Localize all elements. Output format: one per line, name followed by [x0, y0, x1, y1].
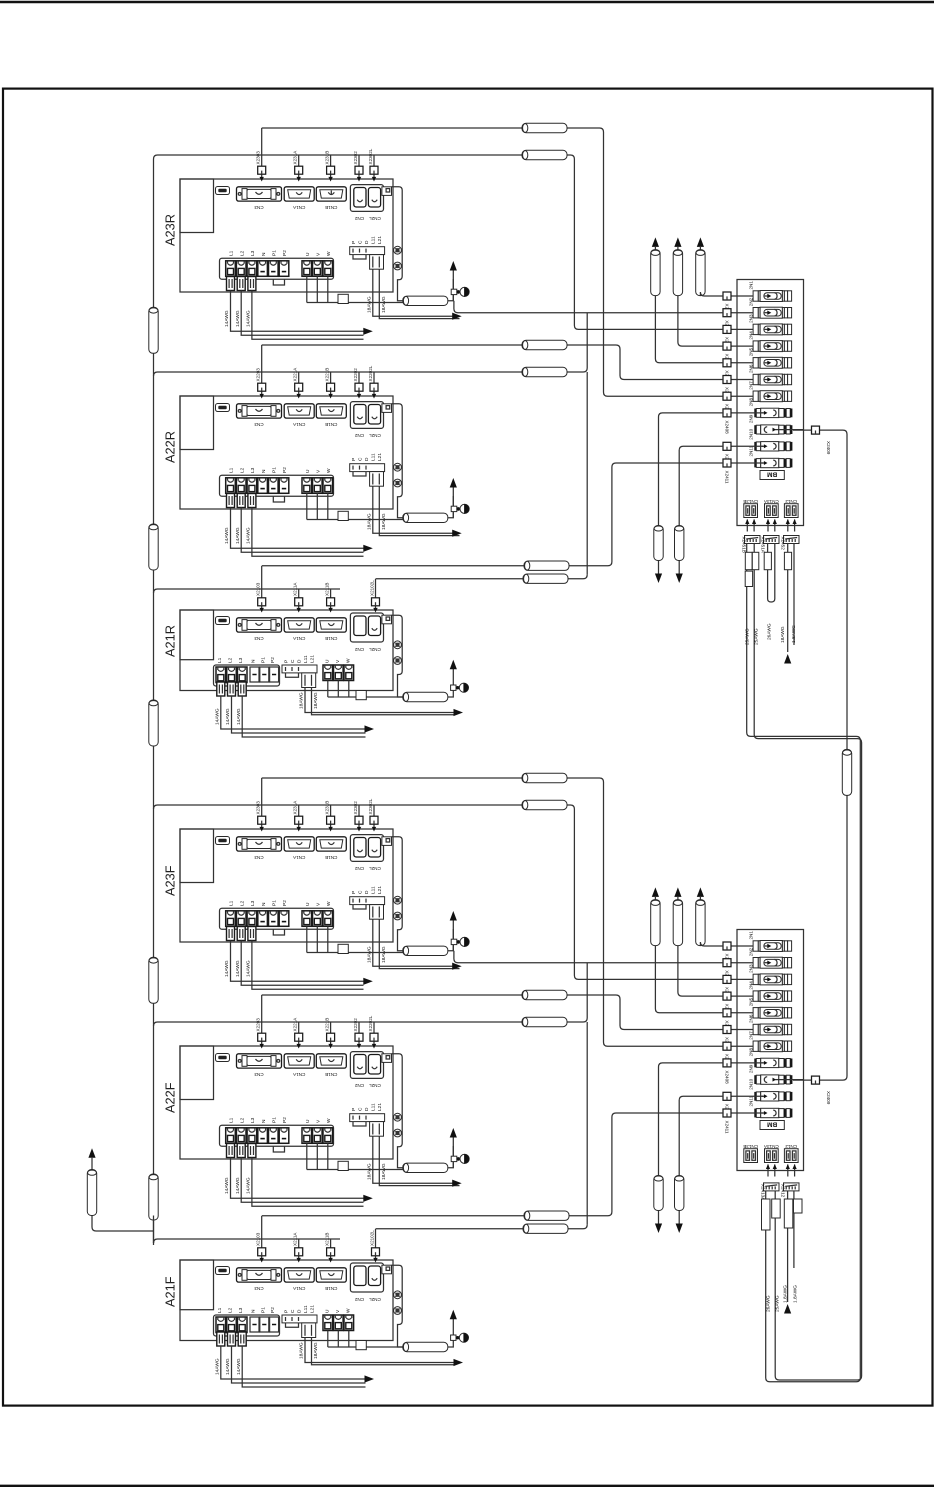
svg-text:2N8: 2N8: [748, 398, 753, 407]
svg-text:18AWG: 18AWG: [381, 513, 387, 530]
svg-text:14AWG: 14AWG: [225, 708, 231, 725]
svg-text:L3: L3: [238, 657, 244, 663]
svg-text:X2409: X2409: [826, 441, 831, 455]
svg-text:CN2L: CN2L: [369, 216, 381, 221]
svg-text:14AWG: 14AWG: [246, 1177, 252, 1194]
svg-text:X2202L: X2202L: [368, 365, 373, 381]
svg-text:26AWG: 26AWG: [766, 1295, 772, 1312]
svg-text:18AWG: 18AWG: [299, 1342, 305, 1359]
svg-text:CN1A: CN1A: [292, 636, 305, 641]
svg-text:14AWG: 14AWG: [215, 708, 221, 725]
svg-text:L1: L1: [217, 657, 223, 663]
svg-text:P1: P1: [272, 900, 278, 906]
svg-text:D: D: [296, 1309, 302, 1313]
svg-text:C: C: [290, 1309, 296, 1313]
svg-text:CN1A: CN1A: [292, 205, 305, 210]
svg-text:V: V: [316, 252, 322, 256]
svg-text:X2411: X2411: [725, 1121, 730, 1134]
svg-text:CN1B: CN1B: [325, 636, 337, 641]
svg-text:14AWG: 14AWG: [224, 960, 230, 977]
svg-text:L11: L11: [371, 886, 377, 894]
svg-text:U: U: [305, 1119, 311, 1123]
svg-text:P1: P1: [272, 1117, 278, 1123]
svg-text:X2302L: X2302L: [368, 798, 373, 814]
svg-text:26AWG: 26AWG: [766, 623, 772, 640]
svg-text:X2202: X2202: [353, 1018, 358, 1032]
svg-text:CN1B: CN1B: [325, 205, 337, 210]
svg-text:CN2: CN2: [354, 1083, 364, 1088]
svg-text:P1: P1: [260, 657, 266, 663]
svg-text:L1: L1: [229, 900, 235, 906]
svg-text:1.8AWG: 1.8AWG: [782, 1285, 788, 1303]
svg-text:14AWG: 14AWG: [236, 708, 242, 725]
svg-text:18AWG: 18AWG: [381, 1163, 387, 1180]
svg-text:CN1A: CN1A: [292, 422, 305, 427]
svg-text:P: P: [351, 241, 357, 244]
svg-text:25AWG: 25AWG: [744, 628, 750, 645]
svg-text:2N5: 2N5: [748, 997, 753, 1006]
svg-text:18AWG: 18AWG: [381, 946, 387, 963]
svg-text:L11: L11: [303, 655, 309, 663]
svg-text:N: N: [261, 1119, 267, 1123]
svg-text:2N3: 2N3: [748, 314, 753, 323]
svg-text:P2: P2: [282, 1117, 288, 1123]
svg-text:2N1: 2N1: [748, 931, 753, 940]
svg-text:18AWG: 18AWG: [313, 1342, 319, 1359]
svg-text:P: P: [351, 458, 357, 461]
svg-text:BM: BM: [767, 1121, 777, 1128]
svg-text:D: D: [364, 1107, 370, 1111]
svg-text:L11: L11: [371, 236, 377, 244]
svg-text:V: V: [316, 1119, 322, 1123]
svg-text:CN2L: CN2L: [369, 647, 381, 652]
svg-text:L3: L3: [250, 1117, 256, 1123]
svg-text:CN1B: CN1B: [325, 422, 337, 427]
svg-text:N: N: [261, 902, 267, 906]
svg-text:X231B: X231B: [324, 801, 329, 815]
svg-text:V: V: [335, 1309, 341, 1313]
svg-text:CN2L: CN2L: [369, 433, 381, 438]
svg-text:D: D: [296, 659, 302, 663]
svg-text:18AWG: 18AWG: [299, 692, 305, 709]
svg-text:CN2: CN2: [354, 216, 364, 221]
svg-text:2N9: 2N9: [748, 414, 753, 423]
svg-text:18AWG: 18AWG: [366, 296, 372, 313]
svg-text:CN1A: CN1A: [292, 1286, 305, 1291]
svg-text:2N4: 2N4: [748, 331, 753, 340]
svg-text:W: W: [326, 251, 332, 256]
svg-text:N: N: [251, 659, 257, 663]
svg-text:L21: L21: [377, 1103, 383, 1111]
svg-text:C: C: [357, 890, 363, 894]
svg-text:18AWG: 18AWG: [366, 1163, 372, 1180]
svg-text:14AWG: 14AWG: [224, 1177, 230, 1194]
svg-text:X2303: X2303: [256, 151, 261, 165]
svg-text:A21F: A21F: [163, 1276, 178, 1307]
svg-text:L2: L2: [239, 467, 245, 473]
svg-text:CN3: CN3: [254, 422, 264, 427]
svg-text:A21R: A21R: [163, 625, 178, 657]
svg-text:C: C: [357, 457, 363, 461]
svg-text:D: D: [364, 240, 370, 244]
svg-text:2N6: 2N6: [748, 1014, 753, 1023]
svg-text:L2: L2: [228, 657, 234, 663]
svg-text:CN2: CN2: [354, 1297, 364, 1302]
svg-text:D: D: [364, 890, 370, 894]
svg-text:N: N: [261, 252, 267, 256]
svg-text:A23R: A23R: [163, 214, 178, 246]
svg-text:X2102L: X2102L: [369, 580, 374, 596]
svg-text:U: U: [305, 902, 311, 906]
svg-text:P2: P2: [270, 1307, 276, 1313]
svg-text:BM: BM: [767, 471, 777, 478]
svg-text:P: P: [283, 660, 289, 663]
svg-text:L1: L1: [217, 1307, 223, 1313]
svg-text:L21: L21: [377, 236, 383, 244]
svg-text:L21: L21: [309, 655, 315, 663]
svg-text:N: N: [251, 1309, 257, 1313]
svg-text:2N3: 2N3: [748, 964, 753, 973]
svg-text:P: P: [283, 1310, 289, 1313]
svg-text:2N6: 2N6: [748, 364, 753, 373]
svg-text:CN3: CN3: [254, 1072, 264, 1077]
svg-text:CN2: CN2: [354, 433, 364, 438]
svg-text:14AWG: 14AWG: [224, 527, 230, 544]
svg-text:14AWG: 14AWG: [235, 310, 241, 327]
svg-text:X2303: X2303: [256, 801, 261, 815]
svg-text:14AWG: 14AWG: [224, 310, 230, 327]
svg-text:X2302: X2302: [353, 151, 358, 165]
svg-text:2N2: 2N2: [748, 947, 753, 956]
svg-text:U: U: [325, 659, 331, 663]
svg-text:CN3: CN3: [254, 855, 264, 860]
svg-text:14AWG: 14AWG: [246, 960, 252, 977]
svg-text:2N10: 2N10: [748, 1078, 753, 1089]
svg-text:CN1B: CN1B: [325, 1286, 337, 1291]
svg-text:X2202L: X2202L: [368, 1015, 373, 1031]
svg-text:CN1B: CN1B: [325, 1072, 337, 1077]
svg-text:L2: L2: [239, 250, 245, 256]
svg-text:CN3: CN3: [254, 1286, 264, 1291]
svg-text:N: N: [261, 469, 267, 473]
svg-text:14AWG: 14AWG: [225, 1358, 231, 1375]
svg-text:P1: P1: [272, 467, 278, 473]
svg-text:L3: L3: [238, 1307, 244, 1313]
svg-text:CN1B: CN1B: [325, 855, 337, 860]
svg-text:X2452: X2452: [781, 537, 786, 551]
svg-text:X2203: X2203: [256, 368, 261, 382]
svg-text:U: U: [305, 469, 311, 473]
svg-text:X231A: X231A: [293, 800, 298, 815]
svg-text:P: P: [351, 1108, 357, 1111]
svg-text:A22F: A22F: [163, 1082, 178, 1113]
svg-text:X2412: X2412: [781, 1184, 786, 1198]
svg-text:U: U: [325, 1309, 331, 1313]
svg-text:L1: L1: [229, 1117, 235, 1123]
svg-text:2N11: 2N11: [748, 445, 753, 456]
svg-text:W: W: [326, 468, 332, 473]
svg-text:L2: L2: [239, 1117, 245, 1123]
svg-text:2N9: 2N9: [748, 1064, 753, 1073]
svg-text:X2409: X2409: [826, 1091, 831, 1105]
svg-text:X2203: X2203: [256, 1018, 261, 1032]
svg-text:W: W: [346, 1308, 352, 1313]
svg-text:P2: P2: [282, 900, 288, 906]
svg-text:X2408: X2408: [725, 420, 730, 434]
svg-text:P1: P1: [272, 250, 278, 256]
svg-text:W: W: [346, 658, 352, 663]
svg-text:C: C: [357, 240, 363, 244]
svg-text:L2: L2: [239, 900, 245, 906]
svg-text:14AWG: 14AWG: [235, 960, 241, 977]
svg-text:X2202: X2202: [353, 368, 358, 382]
svg-text:18AWG: 18AWG: [366, 513, 372, 530]
svg-text:A22R: A22R: [163, 431, 178, 463]
svg-text:P2: P2: [282, 467, 288, 473]
svg-text:2N5: 2N5: [748, 347, 753, 356]
svg-text:X221B: X221B: [324, 1018, 329, 1032]
svg-text:CN2: CN2: [354, 647, 364, 652]
svg-text:L21: L21: [377, 453, 383, 461]
svg-text:18AWG: 18AWG: [780, 626, 786, 643]
svg-text:14AWG: 14AWG: [215, 1358, 221, 1375]
svg-text:CN1A: CN1A: [292, 1072, 305, 1077]
svg-text:P2: P2: [270, 657, 276, 663]
svg-text:P1: P1: [260, 1307, 266, 1313]
svg-text:14AWG: 14AWG: [246, 310, 252, 327]
svg-text:CN2L: CN2L: [369, 866, 381, 871]
svg-text:L3: L3: [250, 467, 256, 473]
svg-text:1.8AWG: 1.8AWG: [793, 1285, 799, 1303]
svg-text:X2451A: X2451A: [761, 537, 766, 554]
svg-text:X221A: X221A: [293, 1017, 298, 1032]
svg-text:14AWG: 14AWG: [235, 527, 241, 544]
svg-text:L11: L11: [371, 453, 377, 461]
svg-text:C: C: [357, 1107, 363, 1111]
svg-text:C: C: [290, 659, 296, 663]
svg-text:X231B: X231B: [324, 151, 329, 165]
svg-text:2N7: 2N7: [748, 1031, 753, 1040]
svg-text:L11: L11: [303, 1305, 309, 1313]
svg-text:P2: P2: [282, 250, 288, 256]
svg-text:25AWG: 25AWG: [753, 628, 759, 645]
svg-text:L1: L1: [229, 467, 235, 473]
svg-text:L21: L21: [309, 1305, 315, 1313]
svg-text:CN2L: CN2L: [369, 1297, 381, 1302]
svg-text:L3: L3: [250, 250, 256, 256]
svg-text:CN1A: CN1A: [292, 855, 305, 860]
svg-text:A23F: A23F: [163, 865, 178, 896]
svg-text:W: W: [326, 901, 332, 906]
svg-text:14AWG: 14AWG: [236, 1358, 242, 1375]
svg-text:L1: L1: [229, 250, 235, 256]
svg-text:14AWG: 14AWG: [246, 527, 252, 544]
svg-text:CN2: CN2: [354, 866, 364, 871]
svg-text:X2408: X2408: [725, 1070, 730, 1084]
svg-text:X2451B: X2451B: [742, 537, 747, 553]
svg-text:2N7: 2N7: [748, 381, 753, 390]
svg-text:X2302L: X2302L: [368, 148, 373, 164]
svg-text:14AWG: 14AWG: [235, 1177, 241, 1194]
svg-text:L21: L21: [377, 886, 383, 894]
svg-text:X221A: X221A: [293, 367, 298, 382]
svg-text:2N8: 2N8: [748, 1048, 753, 1057]
svg-text:25AWG: 25AWG: [775, 1295, 781, 1312]
svg-text:1.8AWG: 1.8AWG: [791, 625, 797, 643]
svg-text:L3: L3: [250, 900, 256, 906]
svg-text:L2: L2: [228, 1307, 234, 1313]
svg-text:V: V: [335, 659, 341, 663]
svg-text:18AWG: 18AWG: [366, 946, 372, 963]
svg-text:CN3: CN3: [254, 636, 264, 641]
svg-text:W: W: [326, 1118, 332, 1123]
svg-text:2N10: 2N10: [748, 428, 753, 439]
svg-text:18AWG: 18AWG: [313, 692, 319, 709]
svg-text:V: V: [316, 469, 322, 473]
svg-text:2N11: 2N11: [748, 1095, 753, 1106]
svg-text:X231A: X231A: [293, 150, 298, 165]
svg-text:P: P: [351, 891, 357, 894]
svg-text:CN3: CN3: [254, 205, 264, 210]
svg-text:2N2: 2N2: [748, 297, 753, 306]
svg-text:X2102L: X2102L: [369, 1230, 374, 1246]
svg-text:2N1: 2N1: [748, 281, 753, 290]
svg-text:2N4: 2N4: [748, 981, 753, 990]
svg-text:CN2L: CN2L: [369, 1083, 381, 1088]
svg-text:X2411: X2411: [725, 471, 730, 484]
svg-text:V: V: [316, 902, 322, 906]
svg-text:U: U: [305, 252, 311, 256]
svg-text:D: D: [364, 457, 370, 461]
svg-text:18AWG: 18AWG: [381, 296, 387, 313]
svg-text:X221B: X221B: [324, 368, 329, 382]
svg-text:X2302: X2302: [353, 801, 358, 815]
svg-text:L11: L11: [371, 1103, 377, 1111]
